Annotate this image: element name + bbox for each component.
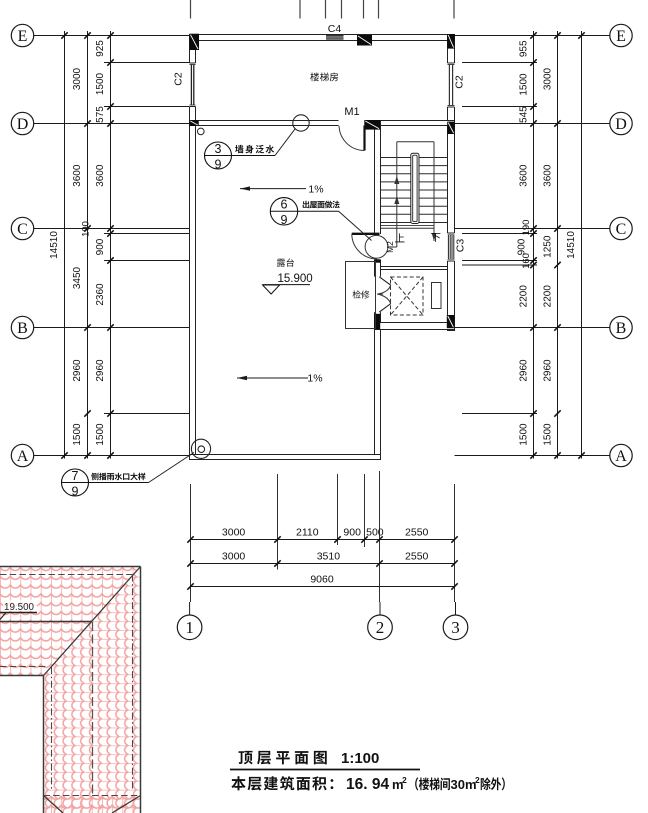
grid bubble C left <box>11 217 33 239</box>
stair door swing arc <box>352 234 377 259</box>
roof eave dash-dot right <box>132 575 134 791</box>
svg-text:3600: 3600 <box>72 164 83 187</box>
down arrow head <box>432 234 436 242</box>
grid line B <box>34 327 190 329</box>
svg-text:190: 190 <box>81 221 92 237</box>
roof bottom hip diagonal left <box>44 796 64 813</box>
svg-text:6: 6 <box>281 198 288 212</box>
svg-text:160: 160 <box>521 253 532 269</box>
east wall upper block <box>448 35 455 331</box>
right extension lines <box>462 62 537 64</box>
north wall (grid E) <box>190 35 455 41</box>
label up <box>395 233 404 242</box>
svg-text:E: E <box>18 28 28 45</box>
small circle below D wall <box>198 128 205 135</box>
svg-text:9060: 9060 <box>310 574 334 586</box>
roof bottom-band tile hatch <box>43 796 140 813</box>
svg-text:1500: 1500 <box>543 423 554 446</box>
svg-text:1500: 1500 <box>95 72 106 95</box>
label inspection room <box>353 290 370 298</box>
svg-text:575: 575 <box>95 106 106 123</box>
grid bubble D right <box>610 112 632 134</box>
column E-3 <box>447 34 454 49</box>
svg-text:3000: 3000 <box>543 67 554 90</box>
door M1 swing arc <box>339 126 365 151</box>
svg-text:1: 1 <box>185 618 194 637</box>
svg-text:1%: 1% <box>308 183 323 195</box>
svg-text:3600: 3600 <box>95 164 106 187</box>
bottom dim ticks <box>187 536 193 542</box>
roof bottom eave dashed <box>44 795 141 797</box>
roof outline right edge <box>140 567 142 813</box>
grid line C <box>34 228 190 230</box>
callout 6/9 text <box>303 201 340 209</box>
grid bubble A left <box>11 444 33 466</box>
svg-text:955: 955 <box>519 40 530 57</box>
roof bottom hip diagonal right <box>112 796 141 813</box>
roof inner corner vertical eave <box>43 676 45 813</box>
up line tail <box>396 228 398 247</box>
svg-text:3000: 3000 <box>72 67 83 90</box>
svg-text:3450: 3450 <box>72 266 83 289</box>
title: top floor plan 1:100 <box>239 751 327 765</box>
svg-text:19.500: 19.500 <box>4 602 35 613</box>
svg-text:900: 900 <box>517 238 528 255</box>
central handrail <box>411 153 419 223</box>
west wall <box>190 35 196 460</box>
elevator X diagonal 2 <box>391 277 424 315</box>
grid line D <box>34 123 190 125</box>
window C2 west <box>189 63 196 107</box>
svg-text:3000: 3000 <box>222 527 246 539</box>
grid bubble B left <box>11 316 33 338</box>
column E-1 <box>190 34 200 50</box>
svg-text:B: B <box>616 320 627 337</box>
B wall (elevator south) <box>375 323 455 330</box>
bottom extension lines <box>190 484 192 602</box>
D wall <box>190 121 455 126</box>
svg-text:1500: 1500 <box>95 423 106 446</box>
svg-text:1500: 1500 <box>519 73 530 96</box>
drain double circle <box>191 439 210 458</box>
svg-text:190: 190 <box>521 220 532 236</box>
elevator car dashed box <box>391 277 424 315</box>
stair door label M2 (rotated) <box>385 241 395 253</box>
left extension lines <box>104 62 190 64</box>
leader 3/9 to wall circle <box>275 129 295 156</box>
callout 6/9 bubble <box>270 198 297 225</box>
stair flight boundary left + up line <box>396 142 398 229</box>
south parapet wall <box>190 455 381 460</box>
roof hip diagonal <box>44 567 141 676</box>
stair landing edge double line <box>381 224 434 226</box>
svg-text:3510: 3510 <box>317 551 341 563</box>
right dim ticks <box>530 32 536 38</box>
left dimension lines <box>64 31 66 459</box>
leader 7/9 <box>149 453 195 483</box>
roof left-wing tile hatch <box>0 567 141 676</box>
svg-text:1%: 1% <box>307 373 322 385</box>
svg-text:C2: C2 <box>454 75 466 89</box>
svg-text:B: B <box>17 320 28 337</box>
roof eave dash-dot inner-v <box>51 667 53 790</box>
svg-text:15.900: 15.900 <box>278 273 313 285</box>
slope arrow upper 1% <box>240 188 306 190</box>
roof middle ridge vertical (dashed) <box>92 622 94 796</box>
column B-2 <box>374 314 380 330</box>
svg-text:2110: 2110 <box>296 527 319 539</box>
elevator X diagonal 1 <box>391 277 424 315</box>
inspection room door opening <box>374 277 382 313</box>
room label stair room <box>310 73 338 82</box>
window C2 east <box>447 63 455 107</box>
svg-text:2550: 2550 <box>405 527 429 539</box>
svg-text:2960: 2960 <box>543 359 554 382</box>
svg-text:2960: 2960 <box>72 359 83 382</box>
svg-text:2200: 2200 <box>519 285 530 308</box>
svg-text:M1: M1 <box>344 106 359 118</box>
svg-text:2: 2 <box>402 775 407 785</box>
door M1 leaf <box>363 126 365 151</box>
svg-text:3600: 3600 <box>519 164 530 187</box>
callout circle on D wall <box>293 115 309 131</box>
svg-text:1:100: 1:100 <box>341 750 379 767</box>
callout 7/9 text <box>91 473 145 481</box>
svg-text:A: A <box>17 448 29 465</box>
svg-text:C4: C4 <box>328 23 342 35</box>
inspection double door arcs <box>379 277 391 285</box>
svg-text:500: 500 <box>366 527 384 539</box>
svg-text:2360: 2360 <box>95 283 106 306</box>
column B-3 <box>447 315 455 328</box>
inspection room outline <box>346 262 376 329</box>
elevator north thin wall <box>381 267 448 270</box>
svg-text:3600: 3600 <box>543 164 554 187</box>
right dimension lines <box>533 31 535 459</box>
callout 3/9 bubble <box>205 142 232 169</box>
svg-text:A: A <box>615 448 627 465</box>
grid bubble E right <box>610 24 632 46</box>
stair treads <box>381 158 448 223</box>
grid bubble B right <box>610 316 632 338</box>
column D-1 <box>189 120 198 126</box>
grid bubble E left <box>11 24 33 46</box>
column E mid <box>357 35 372 46</box>
svg-text:3: 3 <box>451 618 460 637</box>
svg-text:9: 9 <box>281 213 288 227</box>
svg-text:2: 2 <box>376 618 385 637</box>
leader 6/9 <box>339 211 372 240</box>
terrace label <box>277 258 294 266</box>
grid bubble A right <box>610 444 632 466</box>
svg-text:C: C <box>616 221 627 238</box>
roof ridge horizontal <box>0 621 92 623</box>
svg-text:1500: 1500 <box>72 423 83 446</box>
svg-text:30: 30 <box>451 777 465 792</box>
grid bubble C right <box>610 217 632 239</box>
svg-text:C2: C2 <box>173 72 185 86</box>
svg-text:2960: 2960 <box>95 359 106 382</box>
svg-text:9: 9 <box>72 484 79 498</box>
svg-text:7: 7 <box>72 469 79 483</box>
roof inner corner horizontal eave <box>0 675 44 677</box>
column D-3 <box>447 122 454 134</box>
svg-text:1500: 1500 <box>519 423 530 446</box>
roof right-wing tile hatch <box>43 567 140 813</box>
svg-text:D: D <box>615 116 627 133</box>
level triangle <box>263 285 280 294</box>
svg-text:2550: 2550 <box>405 551 429 563</box>
column D-2 <box>364 120 380 130</box>
svg-text:E: E <box>616 28 626 45</box>
door jamb block <box>375 259 381 262</box>
window C4 north (grey infill) <box>326 35 344 40</box>
subtitle: floor area text <box>231 776 333 790</box>
svg-text:M2: M2 <box>385 241 395 253</box>
grid line A <box>34 455 190 457</box>
svg-text:2960: 2960 <box>519 359 530 382</box>
roof level label 19.500 <box>3 600 37 611</box>
svg-text:545: 545 <box>519 106 530 123</box>
elevator counterweight <box>432 283 442 309</box>
callout 7/9 bubble <box>62 469 89 496</box>
slope arrow lower 1% <box>237 377 308 379</box>
svg-text:900: 900 <box>95 238 106 255</box>
svg-text:1250: 1250 <box>543 235 554 258</box>
label down <box>431 233 440 242</box>
svg-text:3: 3 <box>215 142 222 156</box>
stairwell west wall <box>375 121 381 460</box>
grid line E <box>34 35 190 37</box>
svg-text:C3: C3 <box>455 239 467 253</box>
bottom dimension lines <box>191 539 455 541</box>
callout 3/9 text <box>235 145 274 154</box>
stair top connector <box>397 141 434 143</box>
left dim ticks <box>107 32 113 38</box>
svg-text:3000: 3000 <box>222 551 246 563</box>
stair door leaf <box>352 233 380 235</box>
svg-text:16. 94: 16. 94 <box>346 776 389 793</box>
svg-text:14510: 14510 <box>566 231 577 259</box>
svg-text:D: D <box>17 116 29 133</box>
stair door opening in west stairwell wall <box>374 234 382 260</box>
svg-text:2: 2 <box>475 775 480 785</box>
roof eave dashed inner-h <box>0 666 48 668</box>
grid bubble D left <box>11 112 33 134</box>
stair direction arrows <box>394 176 399 184</box>
roof outline top edge <box>0 566 141 568</box>
window C3 east <box>447 233 455 261</box>
svg-text:2200: 2200 <box>543 285 554 308</box>
door M1 opening in D wall <box>339 120 365 127</box>
top extension lines <box>190 0 192 19</box>
svg-text:14510: 14510 <box>49 231 60 259</box>
svg-text:900: 900 <box>343 527 361 539</box>
roof eave dashed top <box>0 574 133 576</box>
stair door circle symbol <box>365 235 388 258</box>
svg-text:C: C <box>17 221 28 238</box>
stair flight boundary right / down line <box>433 142 435 241</box>
svg-text:9: 9 <box>215 157 222 171</box>
grid bubbles 1 2 3 <box>189 602 191 615</box>
svg-text:925: 925 <box>95 40 106 57</box>
